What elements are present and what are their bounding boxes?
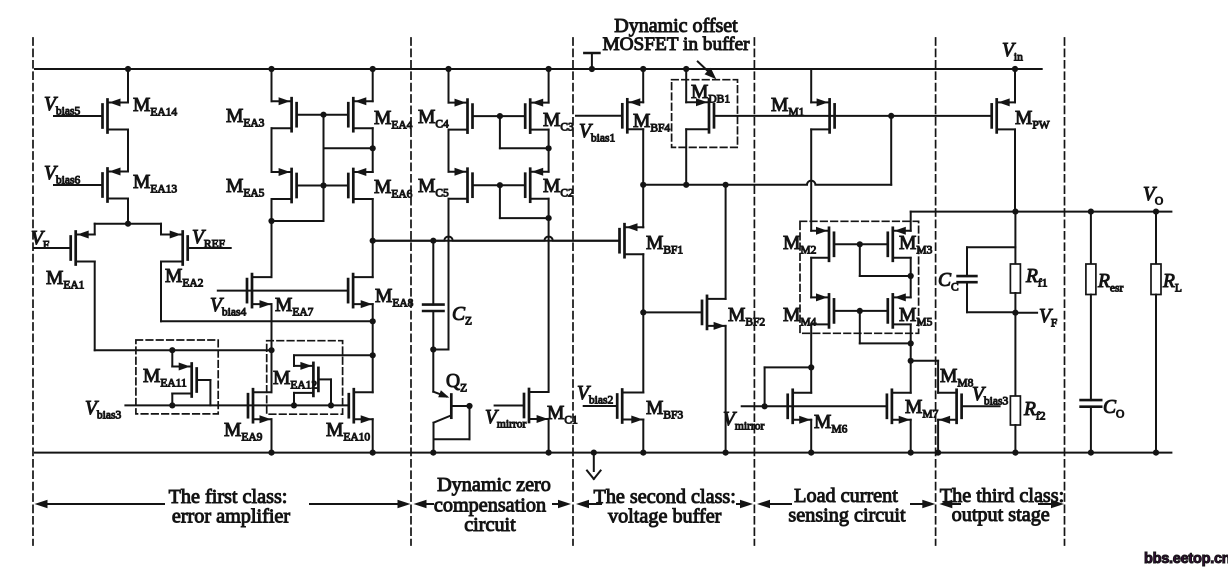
svg-text:bbs.eetop.cn: bbs.eetop.cn bbox=[1144, 551, 1228, 567]
svg-text:error amplifier: error amplifier bbox=[172, 506, 291, 528]
svg-text:circuit: circuit bbox=[464, 514, 516, 536]
svg-text:MOSFET in buffer: MOSFET in buffer bbox=[602, 34, 750, 55]
svg-text:sensing circuit: sensing circuit bbox=[788, 505, 906, 527]
svg-text:voltage buffer: voltage buffer bbox=[608, 506, 722, 528]
svg-text:output stage: output stage bbox=[952, 504, 1050, 526]
svg-text:Dynamic zero: Dynamic zero bbox=[437, 474, 551, 496]
